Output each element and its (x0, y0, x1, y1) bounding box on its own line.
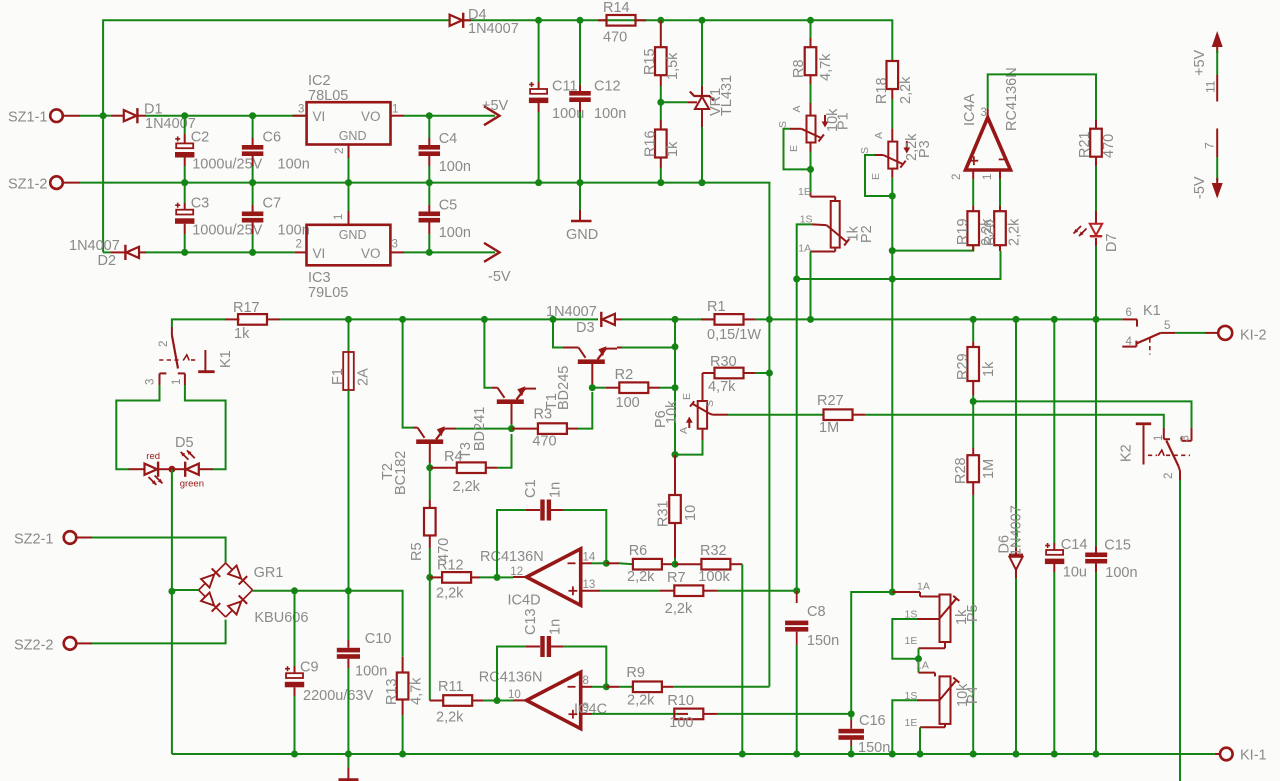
svg-text:P5: P5 (965, 604, 981, 622)
svg-text:GND: GND (339, 129, 367, 143)
D5 red arrows (149, 477, 157, 485)
wire (429, 577, 431, 700)
capacitor C14 (1053, 319, 1055, 543)
resistor R27 (824, 409, 853, 420)
potentiometer P4 (940, 676, 951, 724)
svg-text:IC2: IC2 (308, 73, 331, 89)
junction IC4C pin8 node (603, 683, 610, 690)
svg-text:R10: R10 (667, 693, 694, 709)
svg-text:1k: 1k (981, 361, 997, 377)
wire (185, 385, 226, 469)
svg-text:79L05: 79L05 (308, 285, 348, 301)
P1 E wire (810, 152, 812, 170)
junction (345, 751, 352, 758)
arrow +5V (484, 106, 500, 125)
svg-text:2,2k: 2,2k (436, 586, 464, 602)
wire (973, 401, 1191, 427)
svg-text:S: S (777, 121, 789, 128)
resistor R17 (172, 319, 225, 327)
svg-text:F1: F1 (330, 368, 346, 385)
wire (146, 251, 295, 253)
capacitor C16 (850, 714, 852, 720)
svg-text:3: 3 (145, 379, 157, 385)
junction (672, 384, 679, 391)
K1b blade (1137, 333, 1161, 344)
svg-text:R31: R31 (656, 500, 672, 527)
svg-text:1A: 1A (917, 581, 930, 593)
K1b dashed link (1149, 338, 1151, 354)
D5 green arrows (181, 452, 189, 460)
svg-text:D2: D2 (98, 253, 117, 269)
wire GR1 output (253, 591, 403, 657)
junction (739, 751, 746, 758)
svg-text:R15: R15 (642, 48, 658, 75)
svg-text:2,2k: 2,2k (453, 479, 481, 495)
svg-text:10: 10 (508, 689, 521, 701)
svg-text:R16: R16 (643, 130, 659, 157)
svg-text:E: E (788, 145, 800, 152)
svg-text:R2: R2 (615, 367, 634, 383)
wire (172, 590, 199, 592)
svg-text:2: 2 (158, 341, 170, 347)
svg-text:C8: C8 (807, 604, 826, 620)
relay contact K1b pin6 (1122, 318, 1137, 320)
wire (1179, 480, 1181, 781)
K1a armature (204, 350, 206, 371)
svg-text:SZ1-1: SZ1-1 (8, 110, 48, 126)
capacitor C4 (428, 116, 430, 138)
wire SZ1-2 rail (63, 182, 80, 184)
svg-text:7: 7 (1203, 142, 1217, 149)
svg-text:+5V: +5V (482, 98, 509, 114)
svg-text:1k: 1k (665, 141, 681, 157)
junction (766, 370, 773, 377)
IC3 voltage regulator 79L05 (307, 225, 391, 265)
junction (657, 99, 664, 106)
svg-text:-5V: -5V (1192, 176, 1208, 199)
svg-text:2,2k: 2,2k (1007, 218, 1023, 246)
junction T3 base node (508, 425, 515, 432)
svg-text:+5V: +5V (1192, 49, 1208, 76)
resistor R21 (1095, 115, 1097, 120)
junction (399, 751, 406, 758)
capacitor C6 (252, 116, 254, 138)
ground GND (579, 183, 581, 210)
svg-text:C13: C13 (523, 608, 539, 635)
resistor R11 (430, 700, 444, 702)
shunt reference VR1 TL431 (701, 20, 703, 86)
wire (892, 246, 973, 251)
P1 adjust arrow (824, 115, 826, 124)
P4 1S hook (917, 699, 939, 701)
svg-text:GND: GND (339, 228, 367, 242)
IC4C pin9 (581, 713, 592, 715)
op-amp IC4D (527, 549, 581, 606)
svg-text:P4: P4 (965, 686, 981, 704)
junction (699, 17, 706, 24)
svg-text:1N4007: 1N4007 (69, 238, 120, 254)
svg-text:SZ1-2: SZ1-2 (8, 177, 48, 193)
svg-text:red: red (146, 451, 160, 462)
svg-text:RC4136N: RC4136N (479, 670, 543, 686)
potentiometer P5 (940, 595, 951, 643)
svg-text:A: A (791, 105, 803, 112)
svg-text:R30: R30 (710, 354, 737, 370)
junction (889, 193, 896, 200)
svg-text:1: 1 (1153, 435, 1165, 441)
svg-text:1N4007: 1N4007 (145, 116, 196, 132)
svg-text:P2: P2 (859, 225, 875, 243)
K1a dashed link (159, 359, 182, 361)
junction (249, 112, 256, 119)
svg-text:100n: 100n (278, 157, 310, 173)
junction (291, 751, 298, 758)
LED D7 (1095, 211, 1097, 224)
junction (807, 17, 814, 24)
svg-text:C16: C16 (859, 713, 886, 729)
junction (426, 574, 433, 581)
junction (345, 179, 352, 186)
junction (535, 179, 542, 186)
supply -5V arrow (1216, 129, 1218, 158)
IC4C plus (569, 713, 578, 715)
K2 armature (1136, 422, 1151, 425)
junction P5-P4 node (915, 655, 922, 662)
LED D5 green (186, 464, 199, 475)
svg-text:TL431: TL431 (719, 75, 735, 116)
wire +5V rail (429, 115, 495, 117)
svg-text:VO: VO (361, 109, 381, 124)
capacitor C13 (497, 647, 526, 701)
wire (891, 196, 893, 592)
svg-text:2200u/63V: 2200u/63V (303, 688, 373, 704)
resistor R2 (592, 387, 606, 389)
svg-text:C1: C1 (523, 479, 539, 498)
svg-text:12: 12 (510, 566, 523, 578)
junction (889, 247, 896, 254)
resistor R4 (430, 467, 458, 469)
wire (103, 115, 111, 117)
D7 light arrows (1079, 229, 1087, 237)
svg-text:1n: 1n (548, 619, 564, 635)
wire (797, 278, 893, 280)
trimmer P3 (891, 129, 893, 142)
junction (181, 179, 188, 186)
svg-text:C9: C9 (300, 660, 319, 676)
IC4D plus (569, 590, 578, 592)
svg-text:E: E (870, 173, 882, 180)
svg-text:9: 9 (583, 702, 589, 714)
LED D5 red (129, 468, 145, 470)
junction P5 node (889, 589, 896, 596)
resistor R1 (701, 318, 715, 320)
junction IC4D output node (494, 574, 501, 581)
resistor R32 (675, 563, 702, 565)
P6 S wire (709, 413, 712, 414)
junction (889, 276, 896, 283)
svg-text:4,7k: 4,7k (818, 53, 834, 81)
resistor R28 (972, 401, 974, 448)
svg-text:P3: P3 (917, 140, 933, 158)
junction C16 node (848, 710, 855, 717)
svg-text:2,2k: 2,2k (665, 601, 693, 617)
resistor R7 (660, 590, 674, 592)
svg-text:GR1: GR1 (254, 565, 284, 581)
diode D2 (111, 251, 126, 253)
wire (768, 319, 770, 686)
svg-text:R13: R13 (384, 678, 400, 705)
junction (1093, 316, 1100, 323)
svg-text:100n: 100n (439, 225, 471, 241)
svg-text:SZ2-1: SZ2-1 (14, 532, 54, 548)
wire (617, 347, 622, 349)
P5 1S hook (917, 618, 939, 620)
wire (851, 592, 892, 714)
svg-text:K1: K1 (1143, 303, 1161, 319)
svg-text:GND: GND (566, 227, 598, 243)
wire (77, 642, 92, 644)
svg-text:10u: 10u (1063, 565, 1087, 581)
relay contact K2 (1163, 428, 1165, 440)
capacitor C10 (347, 591, 349, 640)
IC4A minus (999, 158, 1007, 160)
svg-text:2,2k: 2,2k (627, 569, 655, 585)
junction (672, 451, 679, 458)
junction (481, 316, 488, 323)
IC4A pin1 (999, 170, 1001, 179)
svg-text:BD241: BD241 (472, 407, 488, 451)
svg-text:1k: 1k (234, 326, 250, 342)
diode D1 (111, 115, 124, 117)
diode D6 (1015, 319, 1017, 548)
wire (674, 319, 676, 455)
junction (807, 316, 814, 323)
svg-text:3: 3 (392, 239, 398, 251)
svg-text:P1: P1 (836, 112, 852, 130)
svg-text:1n: 1n (548, 482, 564, 498)
svg-text:470: 470 (1101, 134, 1117, 158)
terminal SZ2-2 (64, 637, 77, 650)
svg-text:1: 1 (333, 214, 345, 220)
svg-text:R11: R11 (438, 679, 464, 695)
capacitor C3 (184, 183, 186, 203)
trimmer P6 (702, 373, 704, 383)
svg-text:0,15/1W: 0,15/1W (707, 327, 761, 343)
resistor R13 (402, 657, 404, 673)
wire (404, 251, 429, 253)
terminal SZ2-1 (64, 531, 77, 544)
wire (146, 115, 307, 117)
svg-text:C3: C3 (191, 196, 210, 212)
junction (807, 166, 814, 173)
IC2 voltage regulator 78L05 (307, 102, 391, 144)
potentiometer P2 (831, 201, 840, 248)
K1a pin3 (160, 372, 167, 374)
svg-text:470: 470 (603, 30, 627, 46)
wire (171, 469, 173, 754)
P3 adjust arrow (906, 141, 908, 150)
svg-text:A: A (678, 427, 690, 434)
wire (77, 537, 92, 539)
junction (1013, 751, 1020, 758)
junction (699, 179, 706, 186)
svg-text:R6: R6 (629, 543, 648, 559)
svg-text:4,7k: 4,7k (708, 379, 736, 395)
svg-text:10k: 10k (664, 400, 680, 424)
svg-text:K1: K1 (218, 350, 234, 368)
svg-text:E: E (681, 393, 693, 400)
svg-text:C7: C7 (263, 196, 282, 212)
terminal KI-1 (1215, 753, 1220, 755)
svg-text:14: 14 (583, 552, 596, 564)
resistor R16 (660, 102, 662, 120)
junction (399, 316, 406, 323)
svg-text:4,7k: 4,7k (409, 677, 425, 705)
junction (1013, 316, 1020, 323)
wire main rail (349, 318, 598, 320)
svg-text:1A: 1A (916, 660, 929, 672)
junction (345, 316, 352, 323)
diode D3 (602, 314, 615, 325)
wire (892, 251, 1000, 279)
resistor R31 (674, 455, 676, 495)
svg-text:1E: 1E (798, 186, 811, 198)
junction (1051, 751, 1058, 758)
resistor R9 (606, 686, 619, 688)
IC4C minus (568, 686, 576, 688)
junction T2 base node (426, 464, 433, 471)
svg-text:R27: R27 (817, 393, 844, 409)
junction (181, 249, 188, 256)
junction (672, 343, 679, 350)
P1 S hook wire (790, 128, 801, 130)
svg-text:3: 3 (981, 107, 987, 119)
arrow -5V (484, 243, 500, 262)
resistor R15 (660, 20, 662, 47)
wire (456, 428, 512, 430)
wire (429, 460, 431, 463)
svg-text:IC4D: IC4D (508, 593, 541, 609)
wire (661, 101, 688, 103)
IC4D pin13 (581, 590, 600, 592)
P6 A wire (675, 440, 703, 455)
svg-text:R17: R17 (233, 300, 260, 316)
wire (116, 385, 159, 469)
svg-text:C15: C15 (1104, 538, 1131, 554)
svg-text:C10: C10 (365, 631, 392, 647)
svg-text:6: 6 (1126, 307, 1132, 319)
wire (1175, 332, 1205, 334)
junction (766, 316, 773, 323)
terminal SZ1-1 (50, 109, 63, 122)
junction C8 node (793, 587, 800, 594)
svg-text:KI-2: KI-2 (1240, 328, 1267, 344)
capacitor C8 (796, 591, 798, 603)
svg-text:RC4136N: RC4136N (1004, 67, 1020, 131)
svg-text:2: 2 (951, 174, 963, 180)
svg-text:5: 5 (1164, 320, 1170, 332)
junction (672, 316, 679, 323)
IC4D pin14 (581, 562, 592, 564)
svg-text:VI: VI (313, 109, 326, 124)
wire bottom rail (172, 753, 1215, 755)
IC4A plus (970, 160, 979, 162)
svg-text:2: 2 (1163, 473, 1175, 479)
relay contact K1b pin4 (1122, 346, 1136, 348)
junction (917, 751, 924, 758)
IC4D minus (568, 562, 576, 564)
junction (889, 751, 896, 758)
svg-text:3: 3 (298, 104, 304, 116)
junction (535, 17, 542, 24)
junction T1 base node (589, 384, 596, 391)
P2 1E step (810, 169, 812, 192)
P4 1E step (944, 724, 946, 727)
bridge rectifier GR1 (199, 563, 226, 590)
IC4D pin12 (513, 576, 527, 578)
junction (657, 179, 664, 186)
svg-text:S: S (859, 147, 871, 154)
svg-text:1: 1 (982, 174, 994, 180)
junction (249, 179, 256, 186)
capacitor C7 (252, 183, 254, 205)
capacitor C1 (497, 510, 526, 577)
relay contact K1a (171, 327, 173, 335)
svg-text:11: 11 (1204, 80, 1218, 93)
op-amp IC4C (527, 672, 581, 729)
junction (793, 751, 800, 758)
junction (345, 587, 352, 594)
capacitor C5 (428, 183, 430, 205)
D5 junction (169, 466, 176, 473)
P3 S hook wire (875, 154, 883, 156)
IC4C pin10 (513, 699, 527, 701)
resistor R14 (598, 19, 607, 21)
capacitor C15 (1095, 319, 1097, 546)
IC4C pin8 (581, 686, 592, 688)
junction (970, 751, 977, 758)
trimmer P1 (810, 103, 812, 116)
svg-text:S: S (704, 400, 716, 407)
svg-text:D5: D5 (175, 435, 194, 451)
svg-text:78L05: 78L05 (308, 88, 348, 104)
junction (848, 751, 855, 758)
junction (1093, 751, 1100, 758)
svg-text:1: 1 (171, 379, 183, 385)
svg-text:green: green (180, 479, 204, 490)
ground bottom (347, 754, 349, 767)
svg-text:10: 10 (683, 505, 699, 521)
capacitor C9 (294, 591, 296, 666)
IC4A pin2 (972, 170, 974, 179)
svg-text:R19: R19 (955, 218, 971, 245)
svg-text:KI-1: KI-1 (1240, 748, 1267, 764)
wire (404, 115, 429, 117)
svg-text:13: 13 (583, 579, 596, 591)
svg-text:1: 1 (392, 104, 398, 116)
svg-text:1N4007: 1N4007 (468, 21, 519, 37)
wire (103, 251, 111, 253)
svg-text:R14: R14 (603, 0, 630, 16)
transistor T2 BC182 (403, 319, 413, 427)
capacitor C11 (538, 20, 540, 82)
svg-text:1E: 1E (905, 635, 918, 647)
resistor R18 (891, 60, 893, 62)
svg-text:2,2k: 2,2k (898, 76, 914, 104)
P3 E wire (891, 178, 893, 196)
svg-text:VI: VI (313, 246, 326, 261)
svg-text:100n: 100n (594, 106, 626, 122)
